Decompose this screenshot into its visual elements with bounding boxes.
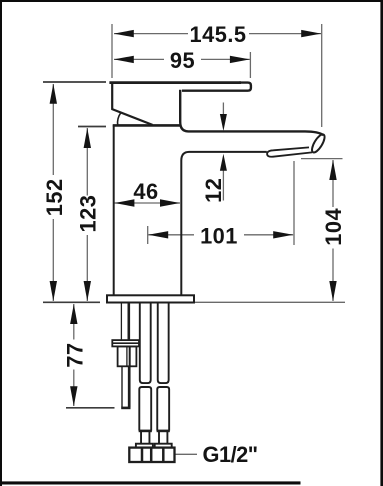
svg-text:123: 123 bbox=[75, 195, 100, 233]
svg-text:95: 95 bbox=[170, 48, 195, 73]
svg-text:152: 152 bbox=[42, 178, 67, 216]
svg-text:G1/2": G1/2" bbox=[203, 442, 258, 467]
svg-text:77: 77 bbox=[63, 342, 88, 367]
svg-text:145.5: 145.5 bbox=[189, 22, 246, 47]
svg-text:46: 46 bbox=[133, 179, 158, 204]
svg-text:101: 101 bbox=[200, 224, 238, 249]
svg-text:12: 12 bbox=[201, 178, 226, 203]
svg-text:104: 104 bbox=[321, 208, 346, 246]
